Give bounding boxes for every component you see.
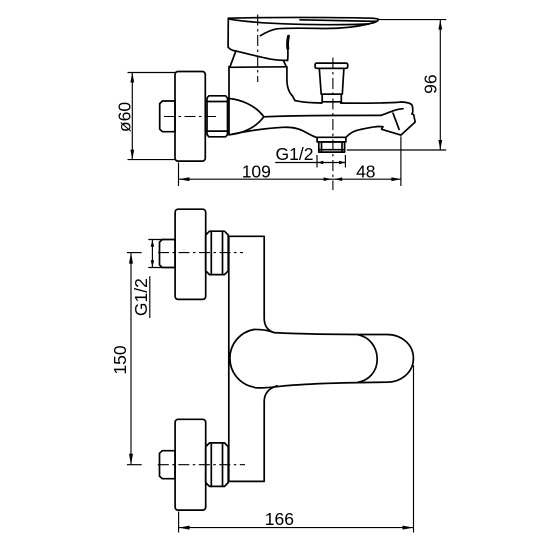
- svg-text:G1/2: G1/2: [131, 278, 151, 316]
- vertical centerline through handle column: [257, 15, 259, 83]
- svg-text:150: 150: [110, 345, 130, 374]
- dimension 96 arrow down: [438, 140, 442, 150]
- centerline through stub and nut: [164, 116, 216, 118]
- diverter knob cap: [315, 63, 348, 68]
- shower outlet threaded body: [319, 142, 345, 152]
- dimension 96 line: [439, 20, 441, 150]
- dimension o60 line: [131, 73, 133, 160]
- dimension 166 arrow left: [179, 526, 190, 530]
- dimension G1/2 arrow left: [317, 161, 323, 164]
- dimension 150 line: [130, 253, 132, 465]
- svg-text:ø60: ø60: [115, 102, 135, 132]
- dimension o60 arrow up: [130, 73, 134, 83]
- dimension 150 arrow down: [129, 454, 133, 465]
- hex nut facet line upper: [207, 101, 228, 103]
- spout neck lower edge: [376, 125, 383, 127]
- front wall pipe stub bottom: [160, 451, 176, 479]
- cartridge ring right side: [283, 61, 286, 67]
- dimension 96 extension bottom: [347, 149, 446, 151]
- body waist line from cone apex: [264, 109, 403, 117]
- body bottom contour right: [347, 127, 376, 137]
- dimension G1/2 top view extension right: [344, 155, 346, 168]
- handle skirt bottom: [228, 47, 287, 60]
- dimension G1/2 front extension top: [148, 239, 164, 241]
- dimension o60 extension top: [128, 72, 177, 74]
- front body column lower right: [229, 386, 277, 482]
- diverter knob foot right flare: [341, 102, 343, 103]
- dimension 96 arrow up: [438, 20, 442, 30]
- svg-text:109: 109: [242, 162, 271, 182]
- dimension G1/2 front arrow down: [151, 260, 154, 267]
- svg-text:48: 48: [356, 162, 375, 182]
- svg-text:166: 166: [265, 509, 294, 529]
- handle left edge: [227, 18, 229, 47]
- dimension 48 arrow right: [391, 177, 401, 181]
- handle blade top edge: [228, 17, 378, 19]
- dimension 166 extension left: [178, 512, 180, 533]
- front escutcheon bottom: [175, 419, 206, 510]
- dimension 109 arrow right at centerline: [324, 177, 332, 181]
- front centerline top: [158, 252, 243, 254]
- cartridge ring left side: [230, 51, 236, 66]
- wall pipe stub (side view): [160, 101, 175, 132]
- handle tip beak: [369, 19, 379, 24]
- dimension 109-48 extension right (spout tip): [400, 136, 402, 186]
- handle skirt right edge (shadowed): [286, 36, 290, 48]
- handle skirt right edge lower: [287, 49, 289, 61]
- front hex nut bottom: [206, 443, 229, 487]
- G1/2 label leader underline: [275, 162, 317, 164]
- body bottom contour left: [229, 127, 317, 137]
- dimension o60 arrow down: [130, 150, 134, 160]
- escutcheon plate (side view): [175, 72, 205, 162]
- front body column: [229, 236, 274, 481]
- dimension 150 extension bottom: [127, 464, 142, 466]
- spout aerator band: [382, 114, 416, 135]
- dimension 109 arrow left: [179, 177, 190, 181]
- front centerline bottom: [158, 464, 245, 466]
- dimension 166 arrow right: [403, 526, 414, 530]
- body wall face vertical line: [228, 67, 230, 135]
- front hex nut bottom facet left: [210, 443, 212, 487]
- dimension G1/2 top view extension left: [316, 155, 318, 168]
- dimension G1/2 front arrow up: [151, 240, 154, 247]
- dimension 109-48 extension left: [178, 163, 180, 187]
- front hex nut top facet right: [222, 231, 224, 274]
- outlet bottom line: [319, 149, 345, 151]
- front hex nut top: [206, 231, 229, 274]
- svg-text:G1/2: G1/2: [276, 144, 314, 164]
- dimension o60 extension bottom: [128, 159, 177, 161]
- handle lower contour line: [260, 24, 369, 36]
- body top plateau left segment: [295, 101, 322, 103]
- dimension 166 line: [179, 527, 414, 529]
- dimension 150 arrow up: [129, 253, 133, 264]
- front lever outline: [230, 329, 414, 387]
- dimension 109-48 line: [179, 178, 401, 180]
- dimension 150 extension top: [127, 252, 142, 254]
- cartridge ring bottom line: [230, 66, 286, 69]
- diverter knob foot left flare: [321, 102, 323, 103]
- vertical centerline through knob and outlet: [332, 58, 334, 191]
- dimension 96 extension top: [380, 19, 447, 21]
- spout nose and right edge: [402, 102, 413, 114]
- spout band separation line: [393, 113, 399, 129]
- front lever end inner curve: [358, 335, 377, 382]
- diverter knob stem: [322, 94, 341, 102]
- dimension G1/2 arrow right: [339, 161, 345, 164]
- S-union cone: [229, 99, 264, 135]
- dimension G1/2 top view line: [317, 162, 345, 164]
- dimension G1/2 front extension bottom: [148, 267, 164, 269]
- handle mid contour line: [230, 19, 369, 24]
- handle top face inner line: [300, 20, 377, 22]
- dimension G1/2 front line: [151, 240, 153, 268]
- column right edge with fillet to body: [287, 67, 295, 101]
- svg-text:96: 96: [421, 74, 441, 93]
- hex nut facet line lower: [207, 130, 228, 132]
- hex nut (side view): [207, 96, 228, 137]
- dimension 48 arrow left at centerline: [334, 177, 342, 181]
- front hex nut bottom facet right: [222, 443, 224, 487]
- diverter knob tapered body: [319, 68, 344, 94]
- outlet thread relief left: [321, 142, 323, 152]
- dimension 166 extension right: [413, 365, 415, 533]
- front escutcheon top: [175, 209, 206, 299]
- front hex nut top facet left: [210, 231, 212, 274]
- G1/2 front label underline: [149, 276, 151, 318]
- body top plateau right segment to spout nose: [341, 102, 402, 103]
- front wall pipe stub top: [160, 240, 176, 268]
- outlet thread relief right: [341, 142, 343, 152]
- shower outlet flange: [317, 137, 346, 142]
